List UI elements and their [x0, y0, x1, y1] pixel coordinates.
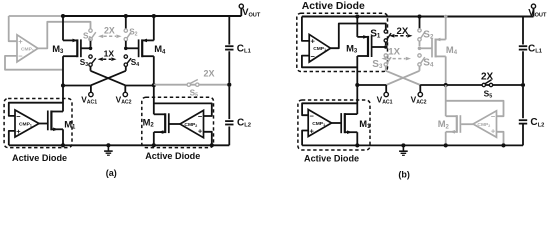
svg-text:1X: 1X: [388, 47, 400, 58]
svg-text:2X: 2X: [481, 71, 494, 82]
svg-text:2X: 2X: [104, 26, 115, 36]
svg-text:Active Diode: Active Diode: [145, 151, 200, 161]
svg-text:+: +: [310, 126, 315, 135]
svg-text:+: +: [18, 37, 23, 46]
svg-text:(b): (b): [398, 169, 410, 179]
svg-text:2X: 2X: [204, 68, 215, 78]
svg-text:+: +: [198, 127, 203, 136]
svg-text:+: +: [16, 127, 21, 136]
svg-text:(a): (a): [106, 168, 117, 178]
svg-text:1X: 1X: [104, 49, 115, 59]
svg-text:−: −: [18, 52, 23, 61]
svg-text:+: +: [311, 37, 316, 46]
svg-text:−: −: [198, 112, 203, 121]
svg-text:Active Diode: Active Diode: [302, 1, 365, 12]
svg-text:−: −: [310, 112, 315, 121]
svg-text:Active Diode: Active Diode: [304, 154, 359, 164]
svg-text:−: −: [491, 112, 496, 121]
svg-text:−: −: [16, 112, 21, 121]
svg-text:Active Diode: Active Diode: [12, 153, 67, 163]
svg-text:+: +: [491, 126, 496, 135]
svg-text:−: −: [311, 52, 316, 61]
